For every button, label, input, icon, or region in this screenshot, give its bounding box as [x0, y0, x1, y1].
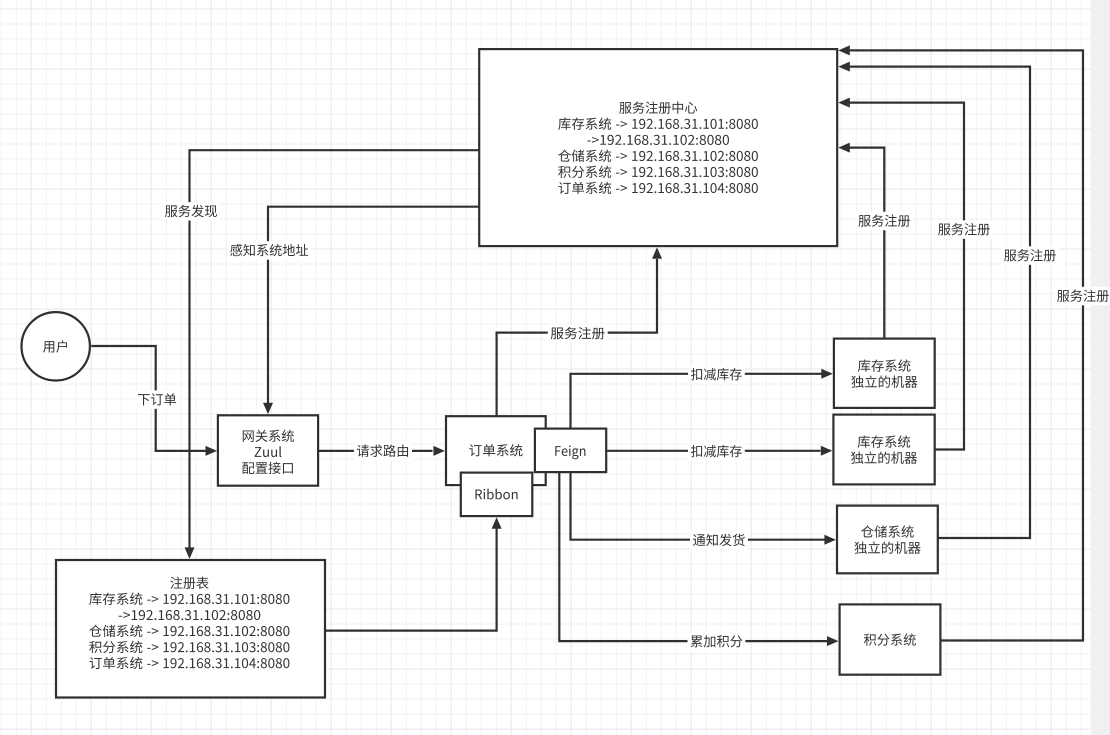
wire: feign to inventory-2 (扣减库存) [606, 446, 832, 456]
wire: gateway to order-system (请求路由) [318, 446, 445, 456]
label: 服务发现 [162, 202, 220, 221]
wire: feign to warehouse (通知发货) [571, 472, 836, 545]
box: 网关系统 Zuul 配置接口 (gateway) [218, 415, 318, 485]
label: 服务注册 right-4 [1054, 287, 1110, 306]
wire: registry-table to ribbon [325, 517, 502, 630]
wire: inventory-2 to registry-center (服务注册) [838, 98, 964, 450]
label: 感知系统地址 [227, 241, 311, 260]
label: 通知发货 [690, 531, 748, 550]
label: 请求路由 [354, 442, 412, 461]
label: 服务注册 right-3 [1001, 246, 1059, 264]
label: 服务注册 right-1 [856, 212, 914, 231]
label: 扣减库存 #2 [688, 442, 745, 461]
wire: user to gateway (下订单) [91, 346, 217, 456]
wire: registry-center to registry-table (服务发现) [185, 150, 480, 559]
node: 用户 (user) circle [22, 312, 90, 380]
box: 订单系统 (order system) [446, 416, 546, 485]
wire: warehouse to registry-center (服务注册) [838, 62, 1030, 538]
label: 累加积分 [688, 632, 746, 651]
box: 库存系统 独立的机器 #1 [834, 339, 935, 408]
wire: points-system to registry-center (服务注册) [838, 45, 1083, 640]
wire: registry-center to gateway (感知系统地址) [263, 207, 479, 415]
wire: feign to inventory-1 (扣减库存) [571, 369, 833, 429]
wire: feign to points-system (累加积分) [559, 472, 838, 646]
box: 注册表 (registry table) [56, 560, 325, 698]
label: 扣减库存 #1 [688, 365, 745, 384]
wire: inventory-1 to registry-center (服务注册) [838, 143, 884, 339]
box: Feign [535, 429, 606, 473]
label: 下订单 [135, 390, 180, 409]
box: 服务注册中心 (service registry center) [479, 49, 837, 246]
wire: order-system to registry-center (服务注册) [497, 247, 662, 416]
label: 服务注册 (center) [548, 324, 608, 343]
box: 库存系统 独立的机器 #2 [833, 415, 934, 485]
box: Ribbon [461, 473, 533, 516]
box: 仓储系统 独立的机器 [837, 506, 938, 574]
canvas edge (grey strip) [1091, 0, 1110, 735]
box: 积分系统 (points system) [840, 604, 941, 674]
label: 服务注册 right-2 [935, 220, 993, 239]
